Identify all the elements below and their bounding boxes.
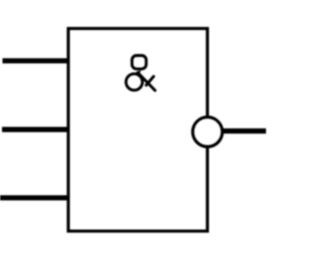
wire input A [3,58,69,63]
wire output Y [223,128,267,133]
& function label [126,56,155,91]
inversion bubble [193,117,223,147]
wire input C [0,195,68,200]
NAND gate U1 body [68,29,207,232]
wire input B [2,127,68,132]
